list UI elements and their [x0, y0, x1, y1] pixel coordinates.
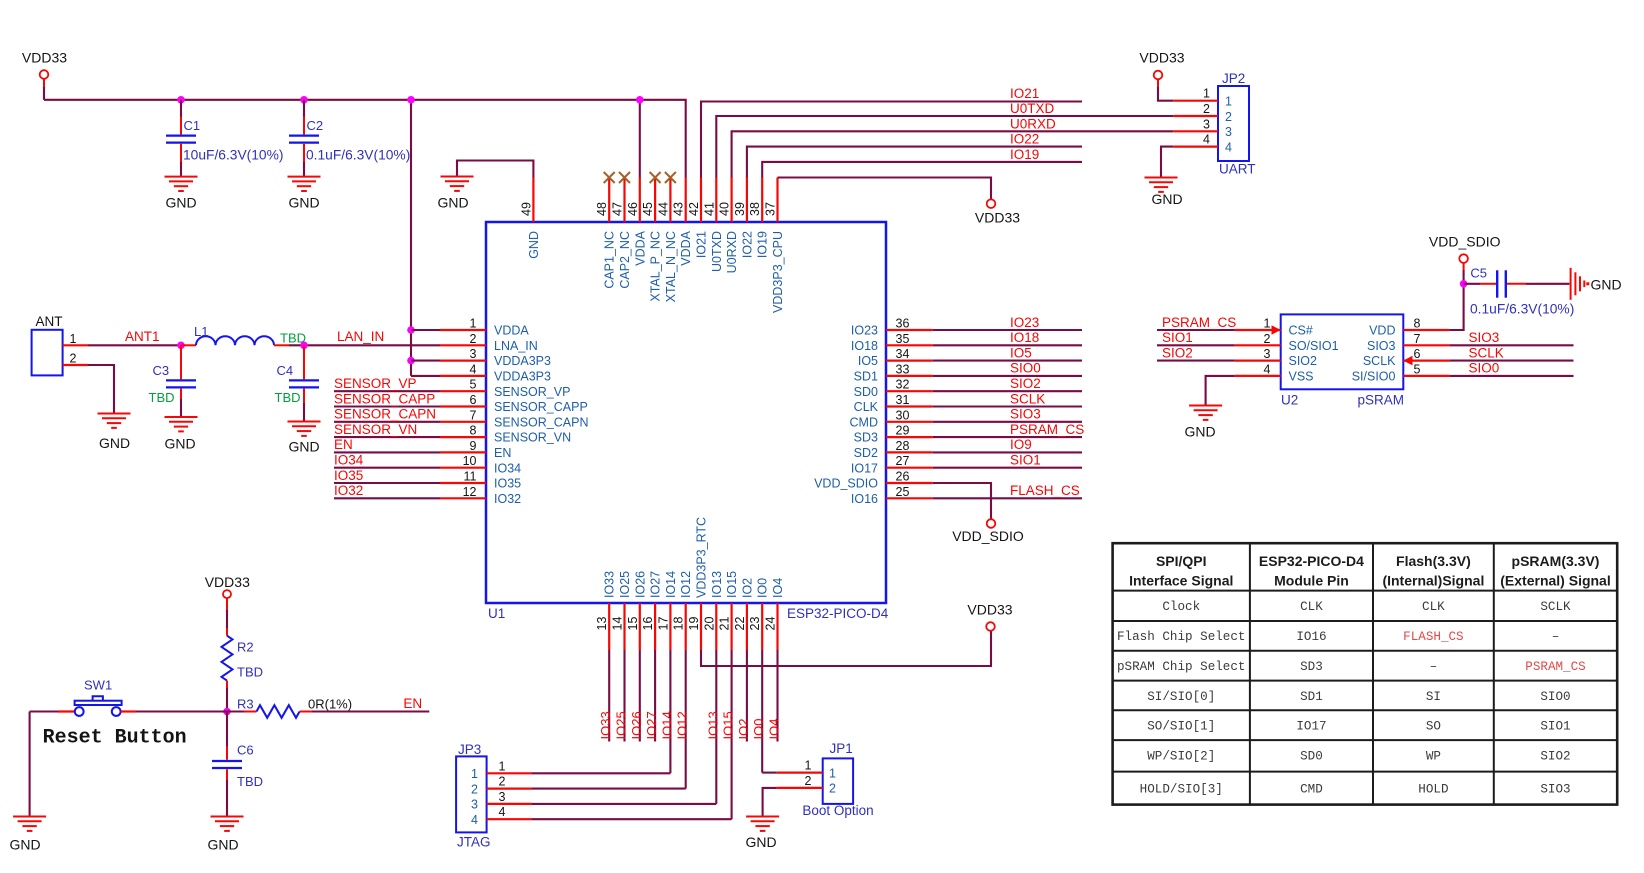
svg-text:WP: WP [1426, 750, 1441, 764]
svg-text:SIO3: SIO3 [1469, 330, 1500, 345]
svg-text:IO16: IO16 [851, 492, 878, 506]
svg-text:VDD_SDIO: VDD_SDIO [952, 528, 1024, 544]
svg-text:VDDA: VDDA [633, 230, 647, 265]
svg-text:25: 25 [896, 485, 910, 499]
svg-text:IO18: IO18 [1010, 330, 1039, 345]
svg-text:Clock: Clock [1162, 600, 1200, 614]
svg-text:41: 41 [702, 202, 716, 216]
svg-text:13: 13 [595, 617, 609, 631]
svg-text:EN: EN [334, 437, 353, 452]
svg-text:XTAL_N_NC: XTAL_N_NC [664, 231, 678, 302]
svg-text:IO14: IO14 [659, 711, 674, 739]
svg-text:LAN_IN: LAN_IN [337, 329, 384, 344]
svg-text:4: 4 [1264, 362, 1271, 376]
svg-text:IO17: IO17 [1296, 720, 1326, 734]
svg-text:GND: GND [207, 837, 238, 853]
svg-text:CAP2_NC: CAP2_NC [618, 231, 632, 289]
svg-text:3: 3 [471, 798, 478, 812]
svg-text:40: 40 [718, 202, 732, 216]
svg-text:CMD: CMD [850, 415, 878, 429]
svg-text:IO32: IO32 [494, 492, 521, 506]
svg-text:2: 2 [805, 774, 812, 788]
svg-text:8: 8 [470, 424, 477, 438]
svg-text:CS#: CS# [1289, 324, 1313, 338]
svg-text:R3: R3 [237, 696, 254, 711]
svg-text:TBD: TBD [237, 774, 263, 789]
svg-text:VDD33: VDD33 [205, 574, 250, 590]
svg-text:ESP32-PICO-D4: ESP32-PICO-D4 [787, 606, 889, 621]
svg-text:4: 4 [1225, 140, 1232, 154]
svg-text:VDDA: VDDA [494, 324, 529, 338]
svg-text:2: 2 [499, 775, 506, 789]
svg-text:SPI/QPI: SPI/QPI [1156, 553, 1207, 569]
svg-text:44: 44 [656, 202, 670, 216]
svg-text:IO34: IO34 [334, 453, 364, 468]
svg-text:VDD3P3_RTC: VDD3P3_RTC [695, 517, 709, 598]
svg-text:17: 17 [656, 617, 670, 631]
svg-text:28: 28 [896, 439, 910, 453]
svg-text:1: 1 [499, 759, 506, 773]
svg-text:IO26: IO26 [629, 711, 644, 739]
svg-text:SCLK: SCLK [1469, 345, 1504, 360]
svg-text:24: 24 [764, 617, 778, 631]
svg-text:TBD: TBD [275, 390, 301, 405]
svg-text:C3: C3 [153, 363, 170, 378]
svg-text:SENSOR_CAPN: SENSOR_CAPN [494, 415, 588, 429]
svg-text:SIO0: SIO0 [1469, 361, 1500, 376]
svg-text:GND: GND [164, 436, 195, 452]
svg-text:SENSOR_VP: SENSOR_VP [494, 385, 570, 399]
svg-text:GND: GND [527, 231, 541, 259]
svg-text:33: 33 [896, 362, 910, 376]
svg-text:SW1: SW1 [84, 677, 112, 692]
svg-text:2: 2 [470, 332, 477, 346]
svg-text:34: 34 [896, 347, 910, 361]
svg-text:JP3: JP3 [458, 742, 481, 757]
svg-text:2: 2 [70, 352, 77, 366]
svg-text:VDD: VDD [1369, 324, 1395, 338]
svg-text:pSRAM Chip Select: pSRAM Chip Select [1117, 660, 1245, 674]
svg-text:JP1: JP1 [830, 741, 853, 756]
svg-text:SD0: SD0 [1300, 750, 1323, 764]
svg-text:45: 45 [641, 202, 655, 216]
svg-text:IO27: IO27 [644, 711, 659, 739]
svg-text:CLK: CLK [1422, 600, 1445, 614]
svg-text:VDD33: VDD33 [1139, 50, 1184, 66]
svg-text:SIO0: SIO0 [1010, 361, 1041, 376]
svg-text:TBD: TBD [149, 390, 175, 405]
svg-text:SENSOR_CAPP: SENSOR_CAPP [494, 400, 588, 414]
svg-text:EN: EN [403, 696, 422, 711]
svg-text:IO14: IO14 [664, 571, 678, 598]
svg-text:IO5: IO5 [1010, 345, 1032, 360]
svg-text:22: 22 [733, 617, 747, 631]
svg-text:23: 23 [748, 617, 762, 631]
svg-text:C1: C1 [184, 118, 201, 133]
svg-text:C2: C2 [307, 118, 324, 133]
svg-text:IO12: IO12 [675, 711, 690, 739]
svg-text:0.1uF/6.3V(10%): 0.1uF/6.3V(10%) [306, 148, 410, 163]
svg-text:R2: R2 [237, 640, 254, 655]
svg-text:IO33: IO33 [603, 571, 617, 598]
svg-text:SIO2: SIO2 [1540, 750, 1570, 764]
svg-text:3: 3 [1203, 117, 1210, 131]
svg-text:3: 3 [1264, 347, 1271, 361]
svg-text:SO/SIO1: SO/SIO1 [1289, 339, 1339, 353]
svg-text:3: 3 [499, 790, 506, 804]
svg-text:Module Pin: Module Pin [1274, 573, 1349, 589]
svg-text:Flash Chip Select: Flash Chip Select [1117, 630, 1245, 644]
svg-text:(Internal)Signal: (Internal)Signal [1382, 573, 1484, 589]
svg-text:5: 5 [1414, 362, 1421, 376]
svg-text:IO15: IO15 [725, 571, 739, 598]
svg-text:IO19: IO19 [1010, 147, 1039, 162]
svg-text:pSRAM(3.3V): pSRAM(3.3V) [1512, 553, 1600, 569]
svg-text:SCLK: SCLK [1540, 600, 1571, 614]
svg-text:C5: C5 [1470, 266, 1487, 281]
svg-text:IO0: IO0 [756, 578, 770, 598]
svg-text:4: 4 [470, 362, 477, 376]
svg-text:48: 48 [595, 202, 609, 216]
svg-text:1: 1 [1203, 87, 1210, 101]
svg-text:38: 38 [748, 202, 762, 216]
svg-text:ANT1: ANT1 [125, 329, 160, 344]
svg-text:U2: U2 [1281, 393, 1298, 408]
svg-text:CAP1_NC: CAP1_NC [603, 231, 617, 289]
svg-text:pSRAM: pSRAM [1357, 393, 1404, 408]
svg-text:XTAL_P_NC: XTAL_P_NC [649, 231, 663, 302]
svg-text:IO9: IO9 [1010, 437, 1032, 452]
svg-text:(External) Signal: (External) Signal [1500, 573, 1610, 589]
svg-text:SD1: SD1 [1300, 690, 1323, 704]
svg-text:GND: GND [288, 439, 319, 455]
svg-text:–: – [1552, 630, 1560, 644]
svg-text:SI/SIO0: SI/SIO0 [1352, 370, 1396, 384]
svg-text:VDD_SDIO: VDD_SDIO [1429, 234, 1501, 250]
svg-text:1: 1 [471, 767, 478, 781]
svg-text:GND: GND [9, 837, 40, 853]
svg-text:JP2: JP2 [1222, 71, 1245, 86]
svg-text:0R(1%): 0R(1%) [308, 696, 352, 711]
svg-text:HOLD: HOLD [1418, 782, 1448, 796]
svg-text:GND: GND [288, 195, 319, 211]
svg-text:SO/SIO[1]: SO/SIO[1] [1147, 720, 1215, 734]
svg-text:CLK: CLK [1300, 600, 1323, 614]
svg-text:SD1: SD1 [854, 370, 878, 384]
svg-text:SIO1: SIO1 [1540, 720, 1570, 734]
svg-text:HOLD/SIO[3]: HOLD/SIO[3] [1140, 782, 1223, 796]
svg-text:IO21: IO21 [1010, 86, 1039, 101]
svg-text:IO35: IO35 [494, 477, 521, 491]
svg-text:SIO3: SIO3 [1540, 782, 1570, 796]
svg-text:19: 19 [687, 617, 701, 631]
svg-text:30: 30 [896, 408, 910, 422]
svg-text:2: 2 [1225, 110, 1232, 124]
svg-text:IO32: IO32 [334, 483, 363, 498]
svg-text:UART: UART [1219, 161, 1256, 176]
svg-text:ESP32-PICO-D4: ESP32-PICO-D4 [1259, 553, 1364, 569]
svg-text:IO17: IO17 [851, 461, 878, 475]
svg-text:IO0: IO0 [751, 719, 766, 740]
svg-text:SENSOR_VP: SENSOR_VP [334, 376, 417, 391]
svg-text:Interface Signal: Interface Signal [1129, 573, 1233, 589]
svg-text:PSRAM_CS: PSRAM_CS [1010, 422, 1084, 437]
svg-text:6: 6 [1414, 347, 1421, 361]
svg-text:42: 42 [687, 202, 701, 216]
svg-text:GND: GND [1151, 191, 1182, 207]
svg-text:FLASH_CS: FLASH_CS [1403, 630, 1463, 644]
svg-text:39: 39 [733, 202, 747, 216]
svg-text:IO22: IO22 [740, 231, 754, 258]
svg-text:29: 29 [896, 424, 910, 438]
svg-text:2: 2 [1264, 332, 1271, 346]
svg-text:Boot Option: Boot Option [802, 803, 873, 818]
svg-text:SENSOR_VN: SENSOR_VN [494, 431, 571, 445]
svg-text:SIO2: SIO2 [1010, 376, 1041, 391]
svg-text:PSRAM_CS: PSRAM_CS [1525, 660, 1585, 674]
svg-text:GND: GND [745, 834, 776, 850]
svg-text:VDD33: VDD33 [975, 210, 1020, 226]
svg-text:GND: GND [165, 195, 196, 211]
svg-text:VDDA: VDDA [679, 230, 693, 265]
svg-text:47: 47 [611, 202, 625, 216]
svg-text:21: 21 [718, 617, 732, 631]
svg-text:IO13: IO13 [710, 571, 724, 598]
svg-text:VSS: VSS [1289, 370, 1314, 384]
svg-text:4: 4 [499, 805, 506, 819]
svg-text:Reset Button: Reset Button [43, 727, 187, 750]
svg-text:1: 1 [70, 332, 77, 346]
svg-text:WP/SIO[2]: WP/SIO[2] [1147, 750, 1215, 764]
svg-text:IO13: IO13 [705, 711, 720, 739]
svg-text:SD0: SD0 [854, 385, 878, 399]
svg-text:35: 35 [896, 332, 910, 346]
svg-text:10uF/6.3V(10%): 10uF/6.3V(10%) [183, 148, 283, 163]
svg-text:43: 43 [672, 202, 686, 216]
svg-text:4: 4 [471, 813, 478, 827]
svg-text:IO25: IO25 [614, 711, 629, 739]
svg-text:49: 49 [519, 202, 533, 216]
svg-text:6: 6 [470, 393, 477, 407]
svg-text:1: 1 [1225, 95, 1232, 109]
svg-text:IO4: IO4 [771, 578, 785, 598]
svg-text:3: 3 [470, 347, 477, 361]
svg-text:SD3: SD3 [1300, 660, 1323, 674]
svg-text:SIO3: SIO3 [1367, 339, 1396, 353]
svg-text:2: 2 [829, 782, 836, 796]
svg-text:VDDA3P3: VDDA3P3 [494, 354, 551, 368]
svg-text:GND: GND [1184, 424, 1215, 440]
svg-text:LNA_IN: LNA_IN [494, 339, 538, 353]
svg-text:16: 16 [641, 617, 655, 631]
svg-text:IO25: IO25 [618, 571, 632, 598]
svg-text:PSRAM_CS: PSRAM_CS [1162, 315, 1236, 330]
svg-text:IO5: IO5 [858, 354, 878, 368]
svg-text:IO2: IO2 [736, 719, 751, 740]
svg-text:GND: GND [1591, 276, 1622, 292]
svg-text:SD3: SD3 [854, 431, 878, 445]
svg-text:36: 36 [896, 317, 910, 331]
svg-text:JTAG: JTAG [457, 835, 491, 850]
svg-text:2: 2 [471, 782, 478, 796]
svg-text:CLK: CLK [854, 400, 879, 414]
svg-text:10: 10 [463, 454, 477, 468]
svg-text:GND: GND [437, 195, 468, 211]
svg-text:ANT: ANT [36, 314, 63, 329]
svg-text:IO2: IO2 [740, 578, 754, 598]
svg-text:C6: C6 [237, 743, 254, 758]
svg-text:SI/SIO[0]: SI/SIO[0] [1147, 690, 1215, 704]
svg-text:IO12: IO12 [679, 571, 693, 598]
svg-text:L1: L1 [194, 324, 208, 339]
svg-text:37: 37 [764, 202, 778, 216]
svg-text:–: – [1430, 660, 1438, 674]
svg-text:SIO3: SIO3 [1010, 407, 1041, 422]
svg-text:18: 18 [672, 617, 686, 631]
svg-text:0.1uF/6.3V(10%): 0.1uF/6.3V(10%) [1470, 301, 1574, 316]
svg-text:IO34: IO34 [494, 461, 521, 475]
svg-text:SENSOR_CAPP: SENSOR_CAPP [334, 391, 435, 406]
svg-text:IO26: IO26 [633, 571, 647, 598]
svg-text:IO21: IO21 [695, 231, 709, 258]
svg-text:U0RXD: U0RXD [1010, 116, 1056, 131]
svg-text:1: 1 [1264, 317, 1271, 331]
svg-text:26: 26 [896, 470, 910, 484]
svg-text:IO23: IO23 [1010, 315, 1039, 330]
svg-text:SIO1: SIO1 [1162, 330, 1193, 345]
svg-text:SENSOR_VN: SENSOR_VN [334, 422, 417, 437]
svg-text:IO22: IO22 [1010, 132, 1039, 147]
svg-text:31: 31 [896, 393, 910, 407]
svg-text:11: 11 [464, 470, 477, 484]
svg-text:IO23: IO23 [851, 324, 878, 338]
svg-text:SCLK: SCLK [1363, 354, 1396, 368]
svg-text:7: 7 [470, 408, 477, 422]
svg-text:SIO2: SIO2 [1162, 345, 1193, 360]
svg-text:1: 1 [805, 759, 812, 773]
svg-text:TBD: TBD [237, 665, 263, 680]
svg-text:4: 4 [1203, 133, 1210, 147]
svg-text:1: 1 [829, 766, 836, 780]
svg-text:IO18: IO18 [851, 339, 878, 353]
svg-text:8: 8 [1414, 317, 1421, 331]
svg-text:Flash(3.3V): Flash(3.3V) [1396, 553, 1471, 569]
svg-text:IO35: IO35 [334, 468, 363, 483]
svg-text:VDD3P3_CPU: VDD3P3_CPU [771, 231, 785, 313]
svg-text:15: 15 [626, 617, 640, 631]
svg-text:SIO1: SIO1 [1010, 453, 1041, 468]
svg-text:SENSOR_CAPN: SENSOR_CAPN [334, 407, 436, 422]
svg-text:2: 2 [1203, 102, 1210, 116]
svg-text:IO4: IO4 [767, 719, 782, 740]
svg-text:U0RXD: U0RXD [725, 231, 739, 273]
svg-text:C4: C4 [277, 363, 294, 378]
svg-text:12: 12 [463, 485, 477, 499]
svg-text:32: 32 [896, 378, 910, 392]
svg-text:VDD33: VDD33 [22, 50, 67, 66]
svg-text:14: 14 [611, 617, 625, 631]
svg-text:3: 3 [1225, 125, 1232, 139]
svg-text:7: 7 [1414, 332, 1421, 346]
svg-text:SO: SO [1426, 720, 1441, 734]
svg-text:IO19: IO19 [756, 231, 770, 258]
svg-text:IO15: IO15 [721, 711, 736, 739]
svg-text:9: 9 [470, 439, 477, 453]
svg-text:VDDA3P3: VDDA3P3 [494, 370, 551, 384]
svg-text:VDD_SDIO: VDD_SDIO [814, 477, 878, 491]
svg-text:IO16: IO16 [1296, 630, 1326, 644]
svg-text:FLASH_CS: FLASH_CS [1010, 483, 1080, 498]
svg-text:SCLK: SCLK [1010, 391, 1045, 406]
svg-text:5: 5 [470, 378, 477, 392]
svg-text:U1: U1 [488, 606, 505, 621]
svg-text:SI: SI [1426, 690, 1441, 704]
svg-text:U0TXD: U0TXD [1010, 101, 1055, 116]
svg-text:SIO2: SIO2 [1289, 354, 1318, 368]
svg-text:27: 27 [896, 454, 910, 468]
svg-text:CMD: CMD [1300, 782, 1323, 796]
svg-text:IO33: IO33 [598, 711, 613, 739]
svg-text:EN: EN [494, 446, 511, 460]
svg-text:SD2: SD2 [854, 446, 878, 460]
svg-text:U0TXD: U0TXD [710, 231, 724, 272]
svg-text:20: 20 [702, 617, 716, 631]
svg-text:46: 46 [626, 202, 640, 216]
svg-text:SIO0: SIO0 [1540, 690, 1570, 704]
svg-text:IO27: IO27 [649, 571, 663, 598]
svg-text:VDD33: VDD33 [967, 602, 1012, 618]
svg-text:GND: GND [99, 435, 130, 451]
svg-text:1: 1 [470, 317, 477, 331]
